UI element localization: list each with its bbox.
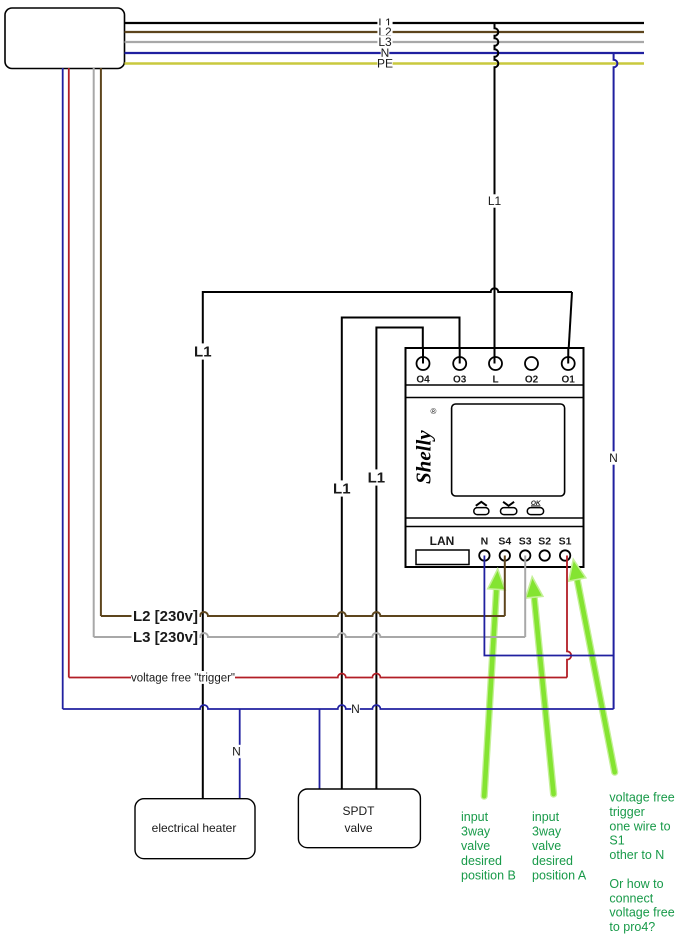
svg-text:electrical heater: electrical heater bbox=[152, 821, 237, 835]
svg-text:L1: L1 bbox=[368, 470, 386, 487]
svg-text:one wire to: one wire to bbox=[609, 819, 670, 833]
terminals O4 O3 L O2 O1 bbox=[417, 357, 430, 370]
svg-text:O1: O1 bbox=[562, 374, 576, 385]
svg-text:L1: L1 bbox=[488, 194, 502, 208]
wire L1 drop from bus to Shelly L terminal bbox=[495, 23, 499, 357]
svg-text:®: ® bbox=[431, 407, 437, 416]
svg-text:S2: S2 bbox=[538, 536, 551, 548]
bus L2 bbox=[125, 31, 645, 33]
net label N bus bbox=[381, 46, 390, 59]
net label L1 valve wire A bbox=[333, 480, 352, 496]
net label L1 on drop bbox=[487, 194, 502, 207]
svg-text:connect: connect bbox=[609, 891, 653, 905]
svg-text:N: N bbox=[232, 745, 241, 759]
svg-text:other to N: other to N bbox=[609, 848, 664, 862]
net label L1 bus bbox=[377, 16, 392, 29]
net label L2 230v bbox=[132, 608, 200, 624]
net label N heater branch bbox=[232, 745, 241, 758]
svg-text:PE: PE bbox=[377, 57, 393, 71]
svg-text:L: L bbox=[492, 374, 498, 385]
svg-text:position B: position B bbox=[461, 868, 516, 882]
svg-text:N: N bbox=[609, 451, 618, 465]
bus L3 bbox=[125, 41, 645, 43]
wire L2 from supply box bbox=[100, 68, 102, 616]
net label PE bus bbox=[377, 57, 392, 70]
svg-text:valve: valve bbox=[532, 839, 561, 853]
wire L1 to O1 terminal bbox=[568, 292, 572, 357]
svg-text:desired: desired bbox=[461, 854, 502, 868]
net label L3 bus bbox=[377, 35, 392, 48]
Shelly Pro 4 device U1 bbox=[406, 348, 584, 567]
net label voltage free trigger bbox=[131, 671, 235, 684]
svg-text:voltage free: voltage free bbox=[609, 906, 674, 920]
svg-text:S1: S1 bbox=[559, 536, 572, 548]
wire N terminal link bbox=[484, 556, 613, 656]
svg-text:L3 [230v]: L3 [230v] bbox=[133, 629, 198, 646]
annotation arrow to S1 bbox=[577, 578, 615, 773]
svg-text:voltage free: voltage free bbox=[609, 791, 674, 805]
svg-text:to pro4?: to pro4? bbox=[609, 920, 655, 934]
wire L2 230v to S4 bbox=[101, 612, 505, 616]
svg-text:valve: valve bbox=[461, 839, 490, 853]
svg-text:L1: L1 bbox=[333, 481, 351, 498]
svg-text:N: N bbox=[481, 536, 489, 548]
svg-text:trigger: trigger bbox=[609, 805, 644, 819]
svg-text:S4: S4 bbox=[498, 536, 511, 548]
svg-text:Or how to: Or how to bbox=[609, 877, 663, 891]
svg-text:O4: O4 bbox=[416, 374, 430, 385]
svg-text:input: input bbox=[461, 810, 489, 824]
svg-text:3way: 3way bbox=[461, 825, 491, 839]
net label L3 230v bbox=[132, 629, 200, 645]
wire N main horizontal bbox=[63, 705, 614, 709]
svg-text:SPDT: SPDT bbox=[342, 804, 375, 818]
wire L3 230v to S3 bbox=[94, 633, 526, 637]
svg-text:valve: valve bbox=[344, 821, 372, 835]
net label N main bbox=[351, 702, 360, 715]
wire N branch to electrical heater bbox=[239, 709, 241, 799]
svg-text:O3: O3 bbox=[453, 374, 467, 385]
wire O4 to SPDT valve bbox=[376, 328, 422, 790]
wire N from supply box bbox=[62, 68, 64, 709]
wire trigger from supply box bbox=[68, 68, 70, 678]
wire L1 to electrical heater bbox=[202, 291, 204, 799]
net label L1 heater wire bbox=[194, 343, 213, 359]
svg-text:S3: S3 bbox=[519, 536, 532, 548]
svg-text:position A: position A bbox=[532, 868, 587, 882]
svg-text:L1: L1 bbox=[194, 344, 212, 361]
svg-text:O2: O2 bbox=[525, 374, 539, 385]
annotation arrow to S4 bbox=[484, 587, 496, 796]
wire stub L bbox=[494, 348, 496, 364]
bus L1 bbox=[125, 22, 645, 24]
net label L2 bus bbox=[377, 25, 392, 38]
wire stub O3 bbox=[459, 348, 461, 364]
wire stub O1 bbox=[567, 348, 569, 364]
net label L1 valve wire B bbox=[367, 469, 386, 485]
svg-text:3way: 3way bbox=[532, 825, 562, 839]
wire O3 to SPDT valve bbox=[342, 318, 460, 790]
wire voltage-free trigger to S1 bbox=[69, 674, 567, 678]
wire stub O4 bbox=[422, 348, 424, 364]
net label N right drop bbox=[609, 451, 618, 464]
svg-text:S1: S1 bbox=[609, 834, 624, 848]
wire N drop from bus right side bbox=[614, 53, 618, 709]
SPDT valve box bbox=[298, 789, 420, 848]
svg-text:input: input bbox=[532, 810, 560, 824]
terminals N S4 S3 S2 S1 bbox=[479, 550, 489, 560]
wire L3 from supply box bbox=[93, 68, 95, 637]
wire L1 horizontal distribution bbox=[203, 288, 572, 292]
svg-text:N: N bbox=[351, 702, 360, 716]
svg-text:L2 [230v]: L2 [230v] bbox=[133, 608, 198, 625]
svg-text:LAN: LAN bbox=[430, 534, 455, 548]
bus PE bbox=[125, 62, 645, 65]
svg-text:Shelly: Shelly bbox=[412, 430, 436, 484]
svg-text:desired: desired bbox=[532, 854, 573, 868]
supply distribution box bbox=[5, 8, 125, 69]
wire N branch to SPDT valve bbox=[319, 709, 321, 789]
bus N bbox=[125, 52, 645, 54]
electrical heater box bbox=[135, 799, 255, 859]
svg-text:voltage free "trigger": voltage free "trigger" bbox=[131, 672, 235, 684]
annotation arrow to S3 bbox=[534, 595, 554, 794]
